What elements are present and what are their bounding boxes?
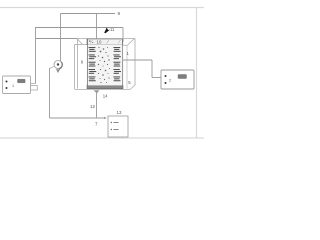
- electrode assembly side walls: [86, 39, 88, 89]
- wire: drain pipe 12 from cell bottom: [96, 92, 98, 119]
- wire: line from electrodes to supply 2: [123, 59, 153, 61]
- wire: top gas line 9: [61, 13, 116, 15]
- electrode assembly top lid 10: [87, 39, 123, 45]
- svg-text:11: 11: [110, 27, 115, 32]
- wire: vertical from line 9 down to pump: [60, 14, 62, 62]
- electrolytic tank 3D outline: [75, 39, 136, 90]
- wire: vertical from line to left supply box: [35, 28, 37, 84]
- wire: second line to tank top edge: [35, 38, 77, 40]
- left electrode plate stack: [89, 47, 97, 81]
- arrowhead into box 13: [104, 117, 107, 119]
- leader arrow for 11: [104, 27, 110, 33]
- svg-text:13: 13: [117, 110, 122, 115]
- pump: [54, 61, 62, 74]
- power supply box 2: [161, 70, 194, 89]
- svg-text:10: 10: [97, 40, 102, 45]
- wire: vertical pipe from line 9 into cell lid: [96, 14, 98, 41]
- electrode assembly bottom bar 14: [87, 86, 123, 89]
- wire: pump outlet down-left: [50, 66, 55, 68]
- funnel at cell drain: [94, 90, 100, 93]
- wire: upper electrical line from supply 1 to cell: [35, 27, 123, 29]
- wire: bottom return line 7: [50, 117, 104, 119]
- right electrode plate stack: [113, 47, 121, 81]
- gas bubbles in electrolyte: [98, 47, 110, 83]
- svg-text:2: 2: [169, 79, 171, 83]
- svg-text:1: 1: [12, 84, 14, 88]
- svg-text:9: 9: [118, 11, 121, 16]
- svg-text:14: 14: [103, 93, 108, 98]
- collection box 13: [108, 116, 128, 137]
- wire: connector tab into supply 1: [31, 84, 38, 91]
- power supply box 1: [3, 76, 31, 94]
- electrolyte interior: [88, 45, 122, 86]
- svg-text:12: 12: [90, 104, 96, 109]
- page border frame (decorative): [0, 8, 204, 139]
- wire: vertical drop into cell top right: [122, 28, 124, 43]
